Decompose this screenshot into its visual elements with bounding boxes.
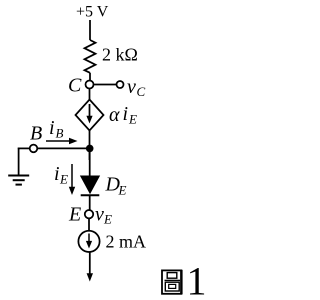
output current arrowhead <box>87 273 93 281</box>
wire junction to diode <box>89 148 91 176</box>
svg-text:2 kΩ: 2 kΩ <box>102 45 138 65</box>
svg-text:E: E <box>103 212 112 227</box>
diode DE <box>81 176 100 193</box>
svg-text:v: v <box>127 76 136 98</box>
arrow inside current source <box>88 234 90 244</box>
svg-text:i: i <box>49 117 55 139</box>
wire node C to vC terminal <box>94 84 117 86</box>
current iB arrow <box>46 140 71 142</box>
svg-text:E: E <box>128 112 137 127</box>
wire ground vertical <box>18 148 20 176</box>
arrow inside dependent source <box>89 104 91 119</box>
wire diode to node E <box>89 195 91 210</box>
svg-text:B: B <box>30 123 42 145</box>
svg-text:2 mA: 2 mA <box>106 232 147 252</box>
dependent current source alpha-iE diamond <box>76 100 104 131</box>
figure caption glyph 圖 <box>162 270 181 295</box>
wire junction to node B terminal <box>37 147 90 149</box>
svg-text:E: E <box>59 172 68 187</box>
svg-text:E: E <box>118 183 127 198</box>
svg-text:α: α <box>109 104 120 126</box>
node B terminal circle <box>30 145 38 153</box>
svg-text:C: C <box>68 75 82 97</box>
current source 2 mA circle <box>78 231 99 252</box>
ground symbol <box>8 176 29 185</box>
wire resistor to node C <box>89 73 91 81</box>
svg-text:B: B <box>56 126 64 141</box>
wire +5V to resistor <box>89 20 91 40</box>
svg-text:+5 V: +5 V <box>76 4 109 21</box>
svg-text:v: v <box>95 204 104 226</box>
junction dot <box>86 145 94 153</box>
svg-text:i: i <box>54 163 60 185</box>
node C terminal circle <box>86 81 94 89</box>
svg-text:1: 1 <box>187 258 207 300</box>
resistor R 2 kOhm zigzag <box>85 40 96 73</box>
svg-text:C: C <box>137 84 146 99</box>
svg-text:i: i <box>123 103 129 125</box>
current iE arrow <box>71 164 73 189</box>
wire below current source <box>89 252 91 275</box>
wire node C to dependent source <box>89 89 91 101</box>
terminal vC circle <box>117 81 124 88</box>
wire node E to current source <box>88 218 90 231</box>
svg-text:E: E <box>68 204 81 226</box>
node E terminal circle <box>85 210 93 218</box>
wire node B to ground corner <box>18 147 30 149</box>
wire dependent source to junction <box>89 131 91 161</box>
